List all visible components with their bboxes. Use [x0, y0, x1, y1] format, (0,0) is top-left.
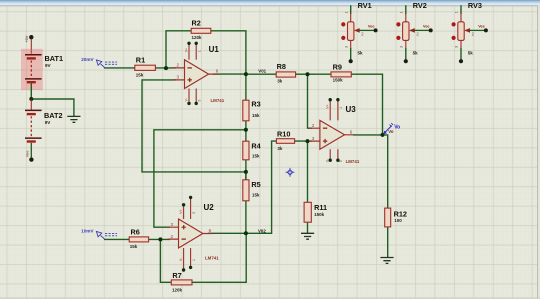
- resistor R3: [243, 99, 261, 120]
- ground (R12): [380, 258, 393, 264]
- wire 10mV source to R6: [104, 238, 130, 240]
- svg-text:15k: 15k: [130, 244, 138, 249]
- resistor R12: [385, 208, 407, 227]
- wire 20mV source to R1: [104, 67, 136, 69]
- generator 20mV: [81, 57, 117, 68]
- svg-text:V-: V-: [326, 159, 330, 162]
- svg-text:9V: 9V: [45, 120, 52, 125]
- svg-text:V+: V+: [326, 104, 330, 108]
- wire R4 to node: [245, 160, 247, 181]
- node U3 pin3 junction: [306, 139, 310, 143]
- svg-text:5k: 5k: [413, 50, 419, 55]
- svg-text:Vee: Vee: [24, 150, 29, 157]
- svg-text:V02: V02: [258, 228, 266, 233]
- wire R3/R4 node to U2 pin3: [154, 130, 246, 227]
- wire U2 output to node V02: [208, 232, 246, 234]
- wire V02 to R10: [246, 141, 277, 233]
- resistor R9: [331, 62, 351, 82]
- potentiometer RV3: [452, 1, 488, 64]
- node V02 (U2 output): [244, 231, 248, 235]
- svg-text:RV3: RV3: [468, 1, 482, 10]
- wire R6 to U2 pin2: [148, 238, 170, 240]
- svg-text:120k: 120k: [172, 288, 183, 293]
- wire R12 to ground: [387, 227, 389, 258]
- svg-text:V01: V01: [258, 68, 266, 73]
- battery BAT2: [25, 100, 63, 158]
- node battery midpoint: [29, 97, 33, 101]
- svg-text:15k: 15k: [136, 72, 144, 77]
- svg-text:20mV: 20mV: [81, 57, 94, 62]
- svg-text:R7: R7: [172, 271, 181, 280]
- resistor R7: [171, 271, 192, 293]
- svg-text:Vo: Vo: [388, 129, 394, 134]
- svg-text:V-: V-: [179, 258, 183, 261]
- node R1/R2/U1.2 junction: [164, 66, 168, 70]
- svg-text:V+: V+: [185, 48, 189, 52]
- resistor R1: [135, 56, 156, 78]
- op-amp U2: [168, 196, 220, 272]
- svg-text:5: 5: [339, 160, 343, 162]
- wire V01 node down to R3: [245, 74, 247, 100]
- wire node to R4: [245, 130, 247, 142]
- node U3 pin2 junction: [306, 72, 310, 76]
- svg-text:Vo: Vo: [394, 124, 400, 130]
- svg-text:5k: 5k: [468, 50, 474, 55]
- resistor R4: [243, 141, 262, 160]
- svg-text:Vee: Vee: [478, 25, 485, 29]
- svg-text:Vee: Vee: [368, 25, 375, 29]
- voltage probe Vo: [383, 123, 400, 134]
- svg-text:R6: R6: [131, 228, 140, 237]
- resistor R10: [276, 130, 294, 151]
- wire R2 feedback branch: [166, 31, 192, 68]
- svg-text:R3: R3: [251, 99, 260, 108]
- svg-text:15k: 15k: [252, 113, 260, 118]
- svg-text:120k: 120k: [192, 35, 203, 40]
- wire U3 pin3 node to R11: [307, 141, 309, 202]
- svg-text:15k: 15k: [252, 153, 260, 158]
- svg-text:LM741: LM741: [346, 159, 360, 164]
- power terminal +9V: [24, 35, 33, 54]
- op-amp U3: [309, 98, 360, 164]
- node R3/R4 junction: [244, 128, 248, 132]
- wire R3 to node: [245, 121, 247, 130]
- node R6/R7/U2.2 junction: [158, 237, 162, 241]
- wire U1 pin3 to R4/R5 node: [142, 80, 246, 172]
- terminal Vee (bottom of BAT2): [24, 150, 33, 161]
- svg-text:15k: 15k: [252, 192, 260, 197]
- resistor R11: [304, 202, 327, 222]
- potentiometer RV2: [396, 1, 432, 64]
- svg-text:R5: R5: [251, 180, 260, 189]
- svg-text:3k: 3k: [277, 146, 283, 151]
- wire Vo node to R12: [383, 135, 388, 209]
- wire R7 to node V02: [192, 233, 246, 282]
- svg-text:R4: R4: [251, 141, 261, 150]
- window bottom edge: [0, 297, 540, 299]
- svg-text:1: 1: [198, 50, 202, 52]
- potentiometer RV1: [341, 1, 377, 64]
- svg-text:U1: U1: [209, 45, 220, 54]
- resistor R6: [129, 228, 148, 249]
- wire node to R9: [308, 73, 332, 75]
- battery BAT1 (selected highlight): [21, 49, 63, 99]
- origin marker: [286, 168, 295, 177]
- svg-text:Vee: Vee: [423, 25, 430, 29]
- node R4/R5 junction: [244, 170, 248, 174]
- wire R9 to output column: [351, 74, 383, 135]
- generator 10mV: [81, 228, 117, 239]
- svg-text:V+: V+: [179, 210, 183, 214]
- svg-text:BAT2: BAT2: [44, 111, 63, 120]
- svg-text:150k: 150k: [314, 212, 325, 217]
- svg-text:5: 5: [198, 100, 202, 102]
- wire node down to U3 pin2: [308, 74, 313, 128]
- ground (R11): [301, 233, 314, 239]
- svg-text:V-: V-: [185, 98, 189, 101]
- wire R1 to U1 pin2: [155, 67, 176, 69]
- svg-text:U2: U2: [204, 203, 215, 212]
- svg-text:1: 1: [339, 107, 343, 109]
- svg-text:5k: 5k: [358, 50, 364, 55]
- wire U1 output to node V01: [213, 73, 246, 75]
- wire node to R5: [245, 172, 247, 180]
- resistor R8: [276, 62, 295, 84]
- svg-text:R2: R2: [192, 19, 201, 28]
- svg-text:LM741: LM741: [211, 98, 225, 103]
- svg-text:R9: R9: [333, 62, 342, 71]
- svg-text:1: 1: [192, 259, 196, 261]
- ground (battery): [67, 116, 80, 122]
- svg-text:3k: 3k: [277, 79, 282, 84]
- wire R5 to node V02: [245, 201, 247, 234]
- node Vo (U3 output): [381, 133, 385, 137]
- svg-text:+9V: +9V: [24, 35, 29, 43]
- svg-text:5: 5: [192, 212, 196, 214]
- svg-text:RV1: RV1: [358, 1, 372, 10]
- svg-text:R1: R1: [136, 56, 145, 65]
- wire R7 feedback branch: [160, 239, 172, 282]
- svg-text:R8: R8: [277, 62, 286, 71]
- resistor R5: [243, 180, 261, 201]
- wire R10 to U3 pin3 node: [295, 140, 313, 142]
- svg-text:100: 100: [394, 218, 402, 223]
- svg-text:9V: 9V: [45, 63, 52, 68]
- wire U3 output to node Vo: [353, 134, 383, 136]
- svg-text:R11: R11: [314, 203, 327, 212]
- window right edge: [537, 6, 540, 299]
- wire V01 row to R8: [246, 73, 277, 75]
- wire battery mid to ground: [31, 99, 74, 116]
- svg-text:LM741: LM741: [205, 255, 219, 260]
- svg-text:U3: U3: [346, 105, 357, 114]
- window top bar: [0, 0, 540, 6]
- wire R2 to output column: [210, 31, 246, 74]
- svg-text:R10: R10: [277, 130, 290, 139]
- node V01 (U1 output): [244, 72, 248, 76]
- op-amp U1: [174, 42, 225, 106]
- svg-text:R12: R12: [394, 209, 407, 218]
- svg-text:150k: 150k: [333, 78, 344, 83]
- wire R11 to ground: [307, 222, 309, 233]
- svg-text:10mV: 10mV: [81, 228, 94, 233]
- resistor R2: [191, 19, 211, 41]
- svg-text:RV2: RV2: [413, 1, 427, 10]
- wire R8 to U3 pin2 node: [296, 73, 308, 75]
